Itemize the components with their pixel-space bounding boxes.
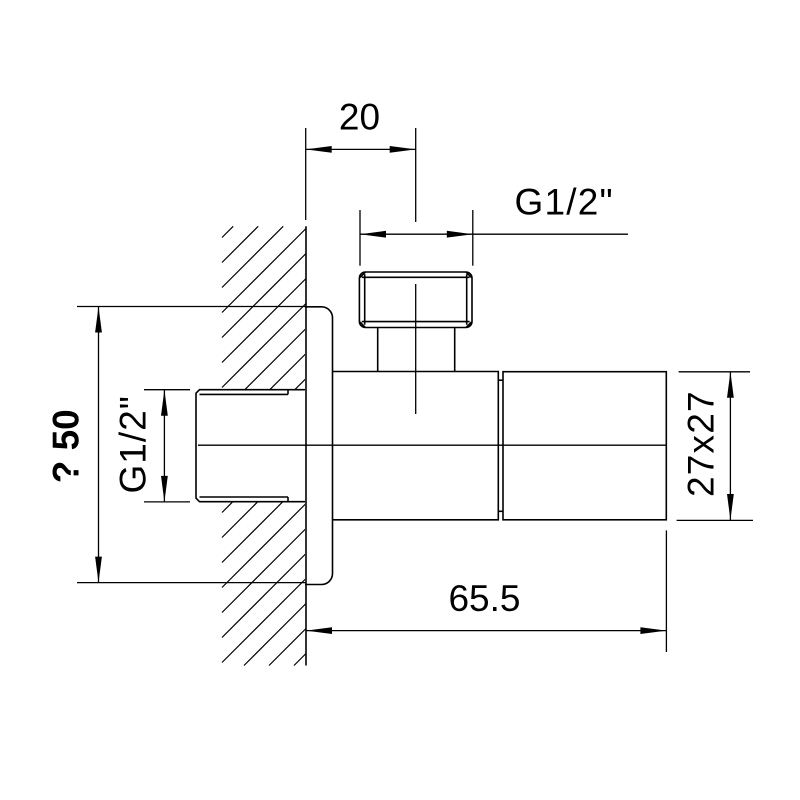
- svg-text:G1/2": G1/2": [113, 395, 154, 493]
- inlet pipe G1/2 thread (left, into wall): [196, 390, 306, 502]
- svg-text:27x27: 27x27: [681, 390, 722, 497]
- svg-text:G1/2": G1/2": [515, 182, 614, 223]
- dimension 65.5 (wall to cap end): [306, 530, 666, 652]
- wall face edge line: [305, 226, 307, 665]
- svg-text:65.5: 65.5: [448, 578, 520, 619]
- svg-text:20: 20: [339, 97, 380, 138]
- dimension ?50 (flange diameter): [46, 307, 307, 583]
- cap / right block 27x27: [503, 372, 666, 520]
- outlet nut G1/2 (top) outer: [359, 272, 472, 328]
- outlet nut inner face: [360, 272, 472, 327]
- joint lines between body and cap: [498, 379, 503, 381]
- dimension 27x27 (cap cross-section): [677, 372, 753, 521]
- dimension 20 (wall to outlet axis): [306, 97, 416, 223]
- neck of top outlet: [377, 328, 379, 372]
- svg-text:? 50: ? 50: [46, 409, 87, 483]
- wall flange (rounded plate): [305, 307, 333, 585]
- dimension G1/2" (outlet nut): [360, 182, 628, 266]
- wall hatching: [222, 226, 306, 665]
- valve body (left block): [333, 372, 499, 520]
- horizontal centerline of body: [198, 444, 666, 446]
- dimension G1/2" (inlet thread): [113, 390, 191, 502]
- vertical centerline of outlet: [415, 284, 417, 414]
